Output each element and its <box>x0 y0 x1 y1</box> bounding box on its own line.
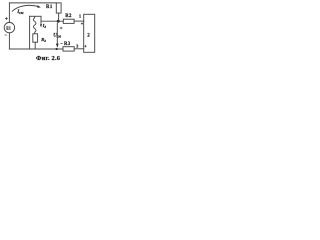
wire R2 to block pin1 <box>74 20 84 22</box>
svg-text:Фиг. 2.6: Фиг. 2.6 <box>36 55 61 62</box>
wire R3 to block pin3 <box>74 48 84 50</box>
svg-text:R2: R2 <box>65 14 72 19</box>
wire top horizontal <box>9 2 56 4</box>
current arrow Id head <box>40 24 42 27</box>
current arrow Icm head <box>37 5 41 8</box>
junction node dot <box>57 20 60 23</box>
voltage arrow Ucm line <box>56 23 58 43</box>
plus mark at Ucm top <box>60 27 63 30</box>
minus mark of source E1 <box>5 34 7 36</box>
resistor R2 rect <box>63 19 74 23</box>
wire Rd to rail <box>34 42 36 49</box>
op-amp block rect <box>84 14 95 52</box>
svg-text:R1: R1 <box>46 5 53 10</box>
svg-text:2: 2 <box>87 34 90 39</box>
plus mark at pin 1 <box>81 23 83 25</box>
wire bottom rail <box>9 48 63 50</box>
svg-text:3: 3 <box>76 43 78 48</box>
plus mark of source E1 <box>5 17 8 20</box>
svg-text:1: 1 <box>79 14 82 19</box>
node bar middle top <box>30 15 41 17</box>
voltage arrow Ucm head <box>56 44 59 48</box>
resistor R3 rect <box>63 47 74 51</box>
svg-text:Iд: Iд <box>42 23 47 29</box>
source E1 circle <box>4 22 14 32</box>
svg-text:Е1: Е1 <box>6 26 11 30</box>
current arrow Id line <box>40 22 42 25</box>
wire R1 to node <box>58 13 60 21</box>
resistor R1 rect <box>56 3 61 13</box>
wire left vertical upper <box>8 3 10 23</box>
svg-text:R3: R3 <box>64 42 71 47</box>
resistor Rd rect <box>33 34 38 42</box>
current arrow Icm arc <box>12 5 38 11</box>
minus mark at Ucm bottom <box>60 42 62 44</box>
wire middle left vertical <box>29 16 31 49</box>
junction dot on rail <box>56 48 58 50</box>
svg-text:Rд: Rд <box>41 37 46 43</box>
wire left vertical lower <box>8 33 10 49</box>
wire node horizontal <box>41 20 63 22</box>
galvanometer coil squiggle <box>33 16 36 33</box>
svg-text:Iсм: Iсм <box>16 10 24 15</box>
plus mark at pin 3 <box>84 45 86 47</box>
wire right vertical of middle network <box>40 16 42 21</box>
svg-text:Uсм: Uсм <box>53 34 61 39</box>
